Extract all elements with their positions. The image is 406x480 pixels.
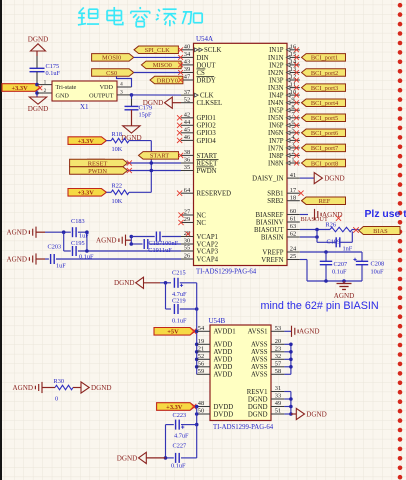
svg-text:60: 60 bbox=[290, 208, 296, 215]
svg-text:1: 1 bbox=[44, 79, 47, 85]
svg-text:R22: R22 bbox=[112, 183, 123, 190]
svg-text:1uF: 1uF bbox=[79, 232, 89, 239]
svg-text:R30: R30 bbox=[54, 378, 65, 385]
svg-text:IN8N: IN8N bbox=[268, 160, 284, 167]
svg-text:4.7uF: 4.7uF bbox=[174, 432, 189, 439]
svg-text:AVSS: AVSS bbox=[251, 372, 268, 379]
svg-text:38: 38 bbox=[184, 149, 190, 156]
svg-text:28: 28 bbox=[184, 230, 190, 237]
svg-text:36: 36 bbox=[184, 157, 190, 164]
svg-text:32: 32 bbox=[275, 353, 281, 360]
svg-text:AVDD: AVDD bbox=[214, 349, 233, 356]
svg-text:GND: GND bbox=[56, 93, 70, 100]
svg-text:37: 37 bbox=[184, 89, 191, 96]
svg-text:CLKSEL: CLKSEL bbox=[197, 100, 223, 107]
svg-text:AGND: AGND bbox=[7, 255, 28, 263]
svg-text:BCI_port1: BCI_port1 bbox=[311, 55, 338, 62]
svg-text:C195: C195 bbox=[71, 240, 85, 247]
svg-text:PWDN: PWDN bbox=[88, 168, 107, 175]
svg-text:24: 24 bbox=[290, 246, 297, 253]
svg-text:U54B: U54B bbox=[209, 317, 226, 325]
svg-text:CS0: CS0 bbox=[106, 70, 117, 77]
svg-text:2: 2 bbox=[291, 149, 294, 156]
svg-text:3: 3 bbox=[120, 89, 123, 95]
svg-text:100nF: 100nF bbox=[162, 240, 179, 247]
svg-text:55: 55 bbox=[184, 245, 190, 252]
svg-text:C208: C208 bbox=[371, 261, 385, 268]
svg-text:VCAP1: VCAP1 bbox=[197, 234, 219, 241]
svg-text:AVDD1: AVDD1 bbox=[214, 329, 236, 336]
svg-text:8: 8 bbox=[291, 104, 294, 111]
svg-text:Tri-state: Tri-state bbox=[56, 84, 77, 91]
svg-text:59: 59 bbox=[198, 368, 204, 375]
svg-text:PWDN: PWDN bbox=[197, 168, 217, 175]
svg-text:IN4N: IN4N bbox=[268, 100, 284, 107]
svg-text:39: 39 bbox=[184, 66, 190, 73]
svg-text:C199: C199 bbox=[327, 239, 341, 246]
svg-text:BCI_port4: BCI_port4 bbox=[311, 100, 339, 107]
svg-text:OUTPUT: OUTPUT bbox=[89, 93, 114, 100]
svg-text:57: 57 bbox=[275, 361, 282, 368]
svg-text:CLK: CLK bbox=[200, 93, 214, 100]
svg-text:61: 61 bbox=[290, 216, 296, 223]
svg-text:IN7N: IN7N bbox=[268, 145, 284, 152]
svg-text:C219: C219 bbox=[172, 298, 186, 305]
svg-text:11: 11 bbox=[290, 81, 296, 88]
svg-text:C191: C191 bbox=[148, 247, 162, 254]
svg-text:VCAP4: VCAP4 bbox=[197, 256, 219, 263]
svg-text:VCAP3: VCAP3 bbox=[197, 248, 219, 255]
svg-text:BIASOUT: BIASOUT bbox=[254, 227, 284, 234]
svg-text:VREFP: VREFP bbox=[262, 249, 283, 256]
svg-text:29: 29 bbox=[184, 216, 190, 223]
svg-text:IN6N: IN6N bbox=[268, 130, 284, 137]
svg-text:1: 1 bbox=[291, 157, 294, 164]
svg-text:C187: C187 bbox=[149, 240, 163, 247]
svg-text:AGND: AGND bbox=[334, 292, 355, 300]
svg-text:56: 56 bbox=[198, 361, 204, 368]
svg-text:1uF: 1uF bbox=[162, 247, 172, 254]
svg-text:18: 18 bbox=[290, 194, 296, 201]
svg-text:AVSS1: AVSS1 bbox=[248, 329, 268, 336]
svg-text:IN5P: IN5P bbox=[269, 108, 284, 115]
svg-text:DGND: DGND bbox=[91, 384, 112, 392]
svg-text:1uF: 1uF bbox=[56, 262, 66, 269]
svg-text:GPIO1: GPIO1 bbox=[197, 115, 216, 122]
svg-text:GPIO4: GPIO4 bbox=[197, 138, 217, 145]
svg-text:64: 64 bbox=[184, 187, 191, 194]
svg-text:IN2N: IN2N bbox=[268, 70, 284, 77]
svg-text:mind the 62# pin BIASIN: mind the 62# pin BIASIN bbox=[261, 300, 379, 312]
svg-text:17: 17 bbox=[290, 187, 297, 194]
svg-text:BCI_port8: BCI_port8 bbox=[311, 160, 338, 167]
svg-text:RESV1: RESV1 bbox=[247, 389, 268, 396]
svg-text:49: 49 bbox=[275, 400, 281, 407]
svg-text:TI-ADS1299-PAG-64: TI-ADS1299-PAG-64 bbox=[196, 269, 257, 276]
svg-text:DRDY0: DRDY0 bbox=[157, 77, 178, 84]
svg-text:SPI_CLK: SPI_CLK bbox=[145, 47, 171, 54]
svg-text:3: 3 bbox=[291, 142, 294, 149]
svg-text:41: 41 bbox=[290, 172, 296, 179]
svg-text:10K: 10K bbox=[112, 146, 123, 153]
svg-text:BIAS: BIAS bbox=[373, 228, 388, 235]
svg-text:DGND: DGND bbox=[248, 411, 268, 418]
svg-text:BCI_port6: BCI_port6 bbox=[311, 130, 338, 137]
svg-text:VCAP2: VCAP2 bbox=[197, 241, 219, 248]
svg-text:15pF: 15pF bbox=[139, 111, 152, 118]
svg-text:IN2P: IN2P bbox=[269, 62, 284, 69]
svg-text:63: 63 bbox=[290, 223, 296, 230]
svg-text:+3.3V: +3.3V bbox=[11, 85, 28, 92]
svg-text:DOUT: DOUT bbox=[197, 62, 217, 69]
svg-text:DGND: DGND bbox=[117, 454, 138, 462]
svg-text:DGND: DGND bbox=[143, 99, 164, 107]
svg-text:+3.3V: +3.3V bbox=[78, 190, 95, 197]
svg-text:0.1uF: 0.1uF bbox=[171, 462, 186, 469]
svg-text:AVDD: AVDD bbox=[214, 372, 233, 379]
svg-text:25: 25 bbox=[290, 253, 296, 260]
svg-text:SRB2: SRB2 bbox=[267, 198, 284, 205]
svg-text:AVSS: AVSS bbox=[251, 364, 268, 371]
svg-text:VDD: VDD bbox=[100, 84, 114, 91]
svg-text:BCI_port2: BCI_port2 bbox=[311, 70, 338, 77]
svg-text:10K: 10K bbox=[112, 198, 123, 205]
svg-text:AVDD: AVDD bbox=[214, 357, 233, 364]
svg-text:SCLK: SCLK bbox=[204, 47, 221, 54]
svg-text:42: 42 bbox=[184, 112, 190, 119]
svg-text:30: 30 bbox=[184, 238, 190, 245]
svg-text:54: 54 bbox=[198, 325, 205, 332]
svg-text:AGND: AGND bbox=[96, 237, 117, 245]
svg-text:BIASOUT: BIASOUT bbox=[301, 216, 328, 223]
svg-text:DGND: DGND bbox=[28, 105, 49, 113]
svg-text:GPIO3: GPIO3 bbox=[197, 130, 217, 137]
svg-text:BCI_port3: BCI_port3 bbox=[311, 85, 338, 92]
svg-text:TI-ADS1299-PAG-64: TI-ADS1299-PAG-64 bbox=[213, 424, 274, 431]
svg-text:MISO0: MISO0 bbox=[153, 62, 172, 69]
svg-text:RESET: RESET bbox=[197, 160, 219, 167]
svg-text:DIN: DIN bbox=[197, 55, 209, 62]
svg-text:0.1uF: 0.1uF bbox=[172, 317, 187, 324]
svg-text:C215: C215 bbox=[172, 270, 186, 277]
svg-text:AGND: AGND bbox=[13, 384, 34, 392]
svg-text:21: 21 bbox=[198, 346, 204, 353]
svg-text:R26: R26 bbox=[326, 222, 337, 229]
svg-text:51: 51 bbox=[275, 408, 281, 415]
svg-text:C207: C207 bbox=[334, 261, 348, 268]
svg-text:IN6P: IN6P bbox=[269, 123, 284, 130]
svg-text:43: 43 bbox=[184, 59, 190, 66]
svg-text:IN5N: IN5N bbox=[268, 115, 284, 122]
svg-text:IN3N: IN3N bbox=[268, 85, 284, 92]
svg-text:45: 45 bbox=[184, 127, 190, 134]
svg-text:IN1P: IN1P bbox=[269, 47, 284, 54]
svg-text:DGND: DGND bbox=[324, 175, 345, 183]
svg-text:REF: REF bbox=[319, 198, 331, 205]
svg-text:BIASINV: BIASINV bbox=[256, 219, 284, 226]
svg-text:52: 52 bbox=[184, 96, 190, 103]
svg-text:BIASIN: BIASIN bbox=[261, 234, 284, 241]
svg-text:48: 48 bbox=[198, 400, 204, 407]
svg-text:NC: NC bbox=[197, 212, 207, 219]
svg-text:IN8P: IN8P bbox=[269, 153, 284, 160]
svg-text:CS: CS bbox=[197, 70, 206, 77]
svg-text:BCI_port5: BCI_port5 bbox=[311, 115, 338, 122]
svg-text:C183: C183 bbox=[71, 218, 85, 225]
svg-text:10: 10 bbox=[290, 89, 296, 96]
svg-text:DVDD: DVDD bbox=[214, 404, 234, 411]
svg-text:IN1N: IN1N bbox=[268, 55, 284, 62]
svg-text:BIASREF: BIASREF bbox=[256, 212, 284, 219]
svg-text:44: 44 bbox=[184, 119, 191, 126]
svg-text:35: 35 bbox=[184, 164, 190, 171]
svg-text:33: 33 bbox=[275, 393, 281, 400]
svg-text:AGND: AGND bbox=[7, 229, 28, 237]
svg-text:13: 13 bbox=[290, 66, 296, 73]
svg-text:34: 34 bbox=[184, 51, 191, 58]
svg-text:9: 9 bbox=[291, 96, 294, 103]
svg-text:MOSI0: MOSI0 bbox=[102, 55, 121, 62]
svg-text:5: 5 bbox=[291, 127, 294, 134]
svg-text:AGND: AGND bbox=[299, 328, 320, 336]
svg-text:DGND: DGND bbox=[114, 279, 135, 287]
svg-text:53: 53 bbox=[275, 325, 281, 332]
svg-text:31: 31 bbox=[275, 385, 281, 392]
svg-text:0.1uF: 0.1uF bbox=[332, 269, 347, 276]
svg-text:6: 6 bbox=[291, 119, 294, 126]
svg-text:R18: R18 bbox=[112, 131, 123, 138]
svg-text:U54A: U54A bbox=[196, 35, 213, 43]
svg-text:IN3P: IN3P bbox=[269, 77, 284, 84]
svg-text:AVDD: AVDD bbox=[214, 364, 233, 371]
svg-text:NC: NC bbox=[197, 220, 207, 227]
svg-text:AVSS: AVSS bbox=[251, 349, 268, 356]
svg-text:+3.3V: +3.3V bbox=[166, 404, 183, 411]
svg-text:10uF: 10uF bbox=[371, 269, 384, 276]
svg-text:IN7P: IN7P bbox=[269, 138, 284, 145]
svg-text:+3.3V: +3.3V bbox=[78, 138, 95, 145]
svg-text:X1: X1 bbox=[80, 103, 89, 111]
svg-text:12: 12 bbox=[290, 74, 296, 81]
svg-text:SRB1: SRB1 bbox=[267, 191, 283, 198]
svg-text:DGND: DGND bbox=[306, 410, 327, 418]
svg-text:C203: C203 bbox=[48, 244, 62, 251]
svg-text:C223: C223 bbox=[173, 412, 187, 419]
svg-text:Plz use th: Plz use th bbox=[365, 209, 406, 220]
svg-text:+5V: +5V bbox=[167, 329, 179, 336]
svg-text:47: 47 bbox=[184, 74, 191, 81]
svg-text:START: START bbox=[197, 153, 218, 160]
svg-text:IN4P: IN4P bbox=[269, 93, 284, 100]
svg-text:52: 52 bbox=[198, 353, 204, 360]
svg-text:AVSS: AVSS bbox=[251, 342, 268, 349]
svg-text:DGND: DGND bbox=[28, 36, 49, 44]
svg-text:0: 0 bbox=[55, 395, 58, 402]
svg-text:DRDY: DRDY bbox=[197, 77, 216, 84]
svg-text:VREFN: VREFN bbox=[261, 257, 283, 264]
svg-text:DGND: DGND bbox=[248, 396, 268, 403]
svg-text:40: 40 bbox=[184, 44, 190, 51]
svg-text:DVDD: DVDD bbox=[214, 411, 234, 418]
svg-text:AVDD: AVDD bbox=[214, 342, 233, 349]
svg-text:23: 23 bbox=[275, 346, 281, 353]
svg-text:46: 46 bbox=[184, 134, 190, 141]
svg-text:16: 16 bbox=[290, 44, 296, 51]
svg-text:27: 27 bbox=[184, 209, 191, 216]
svg-text:50: 50 bbox=[198, 408, 204, 415]
svg-text:20: 20 bbox=[275, 338, 281, 345]
svg-text:BCI_port7: BCI_port7 bbox=[311, 145, 339, 152]
svg-text:15: 15 bbox=[290, 51, 296, 58]
svg-text:19: 19 bbox=[198, 338, 204, 345]
svg-text:GPIO2: GPIO2 bbox=[197, 123, 217, 130]
svg-text:2: 2 bbox=[44, 88, 47, 94]
svg-text:DGND: DGND bbox=[248, 404, 268, 411]
svg-text:RESERVED: RESERVED bbox=[197, 191, 232, 198]
svg-text:AVSS: AVSS bbox=[251, 357, 268, 364]
svg-text:0.1uF: 0.1uF bbox=[46, 70, 61, 77]
svg-text:4: 4 bbox=[120, 81, 123, 87]
svg-text:62: 62 bbox=[290, 231, 296, 238]
svg-text:26: 26 bbox=[184, 253, 190, 260]
svg-text:58: 58 bbox=[275, 368, 281, 375]
svg-text:START: START bbox=[150, 153, 169, 160]
svg-text:C227: C227 bbox=[173, 442, 187, 449]
svg-text:DAISY_IN: DAISY_IN bbox=[252, 176, 283, 183]
